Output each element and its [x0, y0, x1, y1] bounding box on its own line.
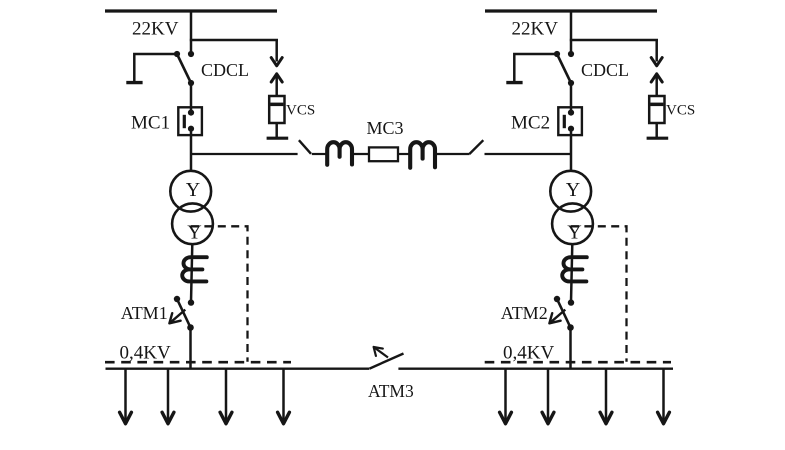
dashed neutral from T1: [191, 226, 248, 361]
svg-text:0,4KV: 0,4KV: [503, 343, 554, 364]
label ATM3: [368, 381, 414, 401]
reactor coil (left LV): [182, 257, 207, 281]
feeder arrow R2: [542, 369, 554, 424]
wire reactor to fuse: [352, 153, 370, 155]
transformer T1 (left), primary winding: [170, 171, 211, 212]
svg-text:22KV: 22KV: [132, 19, 179, 40]
label MC3: [367, 118, 404, 138]
surge arrester VCS body (left): [269, 96, 284, 123]
breaker ATM3 blade: [370, 354, 404, 369]
spark gap up arrow (right VCS): [651, 74, 662, 97]
tie reactor coil (right): [410, 142, 435, 168]
dashed neutral from T2: [571, 226, 627, 361]
wire: MC2 to transformer T2: [570, 129, 573, 172]
wire to left tie reactor: [312, 153, 327, 155]
circuit breaker MC1: [178, 107, 202, 135]
0.4KV bus (right): [398, 368, 673, 370]
breaker ATM1: [169, 296, 194, 331]
circuit breaker MC2: [558, 107, 582, 135]
wire: T2 through reactor to ATM2: [571, 244, 572, 302]
ground bar (right VCS): [647, 137, 669, 140]
feeder arrow L1: [120, 369, 132, 424]
wire: MC1 to transformer T1: [190, 129, 193, 172]
wire: right bus to CDCL: [570, 11, 573, 54]
22KV bus (left): [105, 9, 277, 12]
label ATM1: [121, 303, 168, 323]
svg-text:MC3: MC3: [367, 118, 404, 138]
wire: CDCL earthing branch (right): [514, 54, 557, 81]
spark gap down arrow (right VCS): [651, 40, 662, 66]
ground bar (right CDCL): [506, 81, 522, 84]
surge arrester VCS body (right): [649, 96, 664, 123]
fuse MC3: [369, 147, 398, 161]
tie wire to MC2 column: [485, 153, 572, 155]
wire: CDCL earthing branch (left): [134, 54, 177, 81]
svg-text:CDCL: CDCL: [201, 60, 249, 80]
svg-text:0,4KV: 0,4KV: [120, 343, 171, 364]
svg-text:CDCL: CDCL: [581, 60, 629, 80]
transformer T2 (right), secondary winding: [552, 203, 593, 244]
label CDCL (right): [581, 60, 629, 80]
dashed neutral bus (right): [485, 361, 671, 364]
wire: T1 through reactor to ATM1: [191, 244, 192, 302]
wire to right isolator: [435, 153, 470, 155]
svg-text:ATM2: ATM2: [501, 303, 548, 323]
label 0,4KV (left): [120, 343, 171, 364]
reactor coil (right LV): [562, 257, 587, 281]
feeder arrow L4: [278, 369, 290, 424]
wire: CDCL to MC2: [570, 83, 573, 113]
disconnector CDCL (right): [554, 51, 574, 86]
tie reactor coil (left): [327, 142, 352, 165]
wire: VCS to ground (right): [655, 123, 658, 137]
wire fuse to right tie reactor: [398, 153, 410, 155]
wire: ATM1 to 0.4kV bus: [189, 328, 192, 370]
wire: branch to left VCS: [190, 39, 278, 42]
22KV bus (right): [485, 9, 657, 12]
label MC2: [511, 112, 550, 133]
label VCS (left): [286, 102, 315, 118]
feeder arrow L2: [162, 369, 174, 424]
label CDCL (left): [201, 60, 249, 80]
wire: left bus to CDCL: [190, 11, 193, 54]
transformer T2 (right), primary winding: [550, 171, 591, 212]
label VCS (right): [666, 102, 695, 118]
svg-text:ATM1: ATM1: [121, 303, 168, 323]
label ATM2: [501, 303, 548, 323]
wire: VCS to ground (left): [275, 123, 278, 137]
tie wire from MC1 column: [191, 153, 298, 155]
dashed neutral bus (left): [105, 361, 291, 364]
svg-text:Y: Y: [566, 179, 580, 201]
MC3 right isolator blade: [469, 140, 483, 154]
svg-text:Y: Y: [186, 179, 200, 201]
wire: branch to right VCS: [570, 39, 658, 42]
svg-text:VCS: VCS: [666, 102, 695, 118]
label 0,4KV (right): [503, 343, 554, 364]
feeder arrow L3: [220, 369, 232, 424]
svg-text:VCS: VCS: [286, 102, 315, 118]
disconnector CDCL (left): [174, 51, 194, 86]
label MC1: [131, 112, 170, 133]
svg-text:Y: Y: [567, 221, 581, 243]
label 22KV (right): [512, 19, 559, 40]
wire: CDCL to MC1: [190, 83, 193, 113]
svg-text:MC1: MC1: [131, 112, 170, 133]
MC3 left isolator blade: [299, 140, 311, 154]
0.4KV bus (left): [106, 368, 370, 370]
svg-text:MC2: MC2: [511, 112, 550, 133]
spark gap up arrow (left VCS): [271, 74, 282, 97]
svg-text:22KV: 22KV: [512, 19, 559, 40]
feeder arrow R1: [500, 369, 512, 424]
svg-text:Y: Y: [187, 221, 201, 243]
label 22KV (left): [132, 19, 179, 40]
ground bar (left CDCL): [126, 81, 142, 84]
breaker ATM3 trip arrow: [374, 347, 388, 358]
feeder arrow R3: [600, 369, 612, 424]
wire: ATM2 to 0.4kV bus: [569, 328, 572, 370]
transformer T1 (left), secondary winding: [172, 203, 213, 244]
breaker ATM2: [549, 296, 574, 331]
feeder arrow R4: [658, 369, 670, 424]
svg-text:ATM3: ATM3: [368, 381, 414, 401]
ground bar (left VCS): [267, 137, 289, 140]
spark gap down arrow (left VCS): [271, 40, 282, 66]
